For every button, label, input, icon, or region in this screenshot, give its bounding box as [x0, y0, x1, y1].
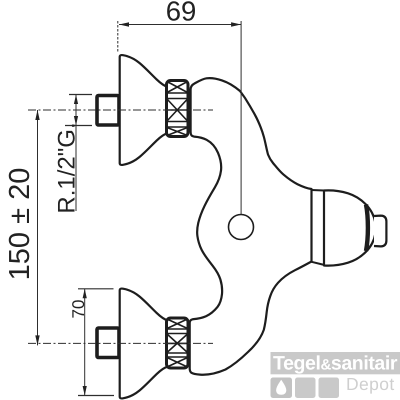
arrowhead right	[231, 22, 241, 26]
tick top	[78, 288, 114, 290]
svg-text:150 ± 20: 150 ± 20	[4, 168, 36, 281]
tick top	[69, 94, 92, 96]
svg-text:R.1/2"G.: R.1/2"G.	[54, 122, 81, 213]
arrow down	[83, 386, 87, 396]
hex nut top	[97, 96, 119, 126]
svg-text:69: 69	[166, 0, 197, 27]
faucet body	[190, 78, 312, 375]
logo square 3	[319, 378, 340, 399]
centerline top	[28, 109, 213, 111]
logo band	[271, 352, 400, 374]
tick bottom	[65, 125, 92, 127]
svg-text:Depot: Depot	[346, 374, 395, 394]
knurled collar top	[167, 81, 189, 137]
knob	[374, 216, 386, 247]
R.1/2 dimension line	[75, 95, 77, 212]
logo square 2	[295, 378, 316, 399]
arrowhead down	[35, 335, 39, 345]
hex nut bottom	[97, 328, 119, 358]
dimension 69 extension line left	[117, 21, 119, 53]
screw circle	[229, 215, 254, 240]
svg-text:70: 70	[69, 300, 88, 319]
tick bottom	[78, 395, 114, 397]
arrow down	[74, 116, 78, 126]
arrowhead up	[35, 110, 39, 120]
dimension 150±20 line	[37, 110, 39, 345]
arrow up	[83, 289, 87, 299]
arrow up	[74, 95, 78, 105]
cartridge ring	[312, 190, 325, 265]
water drop	[276, 380, 286, 395]
centerline bottom	[28, 342, 213, 344]
knurled collar bottom	[167, 318, 189, 368]
axis line	[240, 21, 242, 214]
dimension 70 line	[84, 289, 86, 396]
dome shade band	[366, 205, 368, 251]
svg-text:Tegel&sanitair: Tegel&sanitair	[273, 353, 398, 375]
escutcheon bell bottom	[120, 289, 168, 399]
dimension 69 line	[119, 24, 241, 26]
handle dome	[324, 190, 376, 265]
escutcheon bell top	[120, 55, 168, 165]
arrowhead left	[119, 22, 129, 26]
logo square 1	[271, 378, 293, 399]
